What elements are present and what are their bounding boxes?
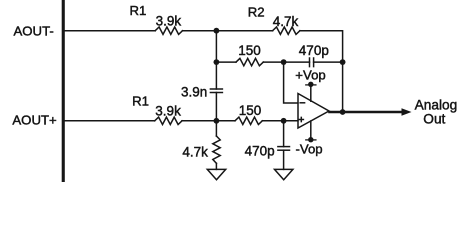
svg-text:3.9k: 3.9k — [156, 14, 182, 29]
wire row3 (node D to 150 bottom) — [216, 120, 235, 122]
input bus bar — [62, 0, 65, 182]
wire op-amp output (bold) — [330, 111, 403, 114]
svg-text:R1: R1 — [130, 3, 147, 18]
svg-text:3.9n: 3.9n — [181, 85, 207, 100]
op-amp +Vop supply pin — [310, 84, 312, 101]
op-amp plus sign — [299, 117, 303, 121]
svg-text:R2: R2 — [248, 4, 265, 19]
output arrowhead — [402, 108, 412, 115]
wire row3 (150 to node E) — [262, 120, 283, 122]
svg-text:150: 150 — [239, 103, 262, 118]
wire row2 (150 to node C) — [263, 61, 283, 63]
resistor 4.7k (to ground) — [213, 136, 220, 163]
+Vop terminal dot — [306, 82, 316, 87]
wire row1 (node A to R2) — [216, 30, 272, 32]
resistor 150 (bottom) — [235, 117, 262, 124]
wire capacitor 470p to ground — [283, 150, 285, 169]
svg-text:+Vop: +Vop — [295, 67, 325, 82]
capacitor C 3.9n — [210, 89, 222, 93]
svg-text:3.9k: 3.9k — [155, 103, 181, 118]
op-amp minus sign — [300, 102, 304, 104]
svg-text:150: 150 — [238, 43, 261, 58]
wire row3 left (AOUT+ to R1 bottom) — [65, 120, 155, 122]
svg-text:AOUT+: AOUT+ — [12, 113, 57, 128]
capacitor 470p (feedback) — [310, 58, 314, 67]
output junction dot — [340, 109, 346, 115]
resistor 150 (top) — [236, 58, 263, 65]
svg-text:470p: 470p — [299, 43, 329, 58]
wire row2 (node C to capacitor 470p top) — [284, 61, 310, 63]
feedback node junction dot — [340, 59, 346, 65]
wire node B down to capacitor 3.9n — [215, 62, 217, 89]
wire row1 mid (R1 to node A) — [183, 30, 217, 32]
wire row2 (node B to 150) — [216, 61, 236, 63]
wire capacitor 3.9n to node D — [215, 93, 217, 121]
wire resistor 4.7k to ground — [215, 163, 217, 169]
wire node D down to resistor 4.7k — [215, 121, 217, 136]
ground (under 4.7k) — [207, 169, 225, 179]
svg-text:AOUT-: AOUT- — [14, 23, 54, 38]
svg-text:-Vop: -Vop — [296, 141, 323, 156]
node D junction dot — [214, 118, 220, 124]
node E junction dot (non-inverting input node) — [281, 118, 287, 124]
wire node A down to row2 — [215, 31, 217, 62]
wire node E down to capacitor 470p bottom — [283, 121, 285, 147]
-Vop terminal dot — [306, 137, 316, 142]
wire node E to op-amp non-inverting input — [284, 120, 298, 122]
wire feedback vertical down to output — [342, 62, 344, 112]
resistor R1 (top) — [155, 27, 182, 34]
wire row2 (capacitor to feedback line) — [314, 61, 343, 63]
op-amp U1 — [298, 94, 329, 129]
svg-text:R1: R1 — [132, 94, 149, 109]
svg-text:4.7k: 4.7k — [273, 14, 299, 29]
svg-text:Out: Out — [423, 111, 445, 126]
capacitor 470p (to ground) — [278, 147, 290, 151]
svg-text:470p: 470p — [245, 144, 275, 159]
node B junction dot — [214, 59, 220, 65]
ground (under 470p) — [275, 169, 293, 179]
wire row3 mid (R1 to node D) — [182, 120, 216, 122]
resistor R2 — [273, 27, 300, 34]
wire row1 left (AOUT- to R1) — [65, 30, 155, 32]
svg-text:4.7k: 4.7k — [182, 145, 208, 160]
node C junction dot (inverting input node) — [281, 59, 287, 65]
resistor R1 (bottom) — [155, 117, 182, 124]
wire node C down to op-amp inverting input — [284, 62, 298, 103]
op-amp -Vop supply pin — [310, 121, 312, 140]
node A junction dot — [214, 28, 220, 34]
svg-text:Analog: Analog — [415, 98, 458, 113]
wire row1 right (R2 to feedback corner) — [300, 31, 343, 62]
